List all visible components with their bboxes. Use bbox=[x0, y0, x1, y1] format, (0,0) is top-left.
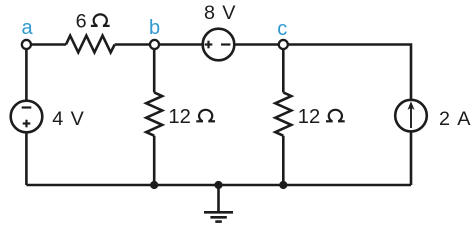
current source I1 2A (circle) bbox=[395, 100, 427, 132]
wire: node b branch upper bbox=[153, 45, 156, 93]
svg-text:2: 2 bbox=[439, 108, 450, 130]
wire: node c branch lower bbox=[282, 136, 285, 185]
I1 arrow (pointing up) bbox=[408, 101, 415, 128]
svg-text:12: 12 bbox=[298, 106, 320, 128]
wire: bottom rail bbox=[26, 184, 411, 187]
svg-text:8: 8 bbox=[204, 2, 215, 24]
wire: resistor R1 to node b bbox=[115, 43, 155, 46]
junction dot at ground bbox=[214, 181, 222, 189]
voltage source V2 8V (circle) bbox=[203, 29, 235, 61]
node c (open circle) bbox=[279, 40, 288, 49]
V2 minus sign bbox=[221, 43, 230, 45]
omega glyph (drawn) for 6 ohm bbox=[91, 14, 110, 26]
svg-text:a: a bbox=[21, 17, 33, 39]
resistor R3 12 ohm (vertical zigzag) bbox=[275, 92, 291, 135]
svg-text:c: c bbox=[277, 18, 287, 40]
V1 plus sign bbox=[23, 120, 31, 128]
wire: node c to top-right corner and right rail down bbox=[283, 45, 411, 186]
resistor R2 12 ohm (vertical zigzag) bbox=[146, 92, 162, 135]
svg-text:6: 6 bbox=[76, 10, 87, 32]
svg-text:4: 4 bbox=[52, 108, 63, 130]
wire: node a to resistor R1 bbox=[26, 43, 66, 46]
ground symbol bbox=[204, 185, 233, 222]
V2 plus sign bbox=[205, 41, 213, 49]
wire: left rail from node a down through source V1 bbox=[25, 45, 28, 186]
V1 minus sign bbox=[22, 106, 32, 108]
svg-text:A: A bbox=[457, 108, 471, 130]
node a (open circle) bbox=[22, 40, 31, 49]
voltage source V1 4V (circle) bbox=[11, 101, 43, 133]
wire: node c branch upper bbox=[282, 45, 285, 93]
svg-text:12: 12 bbox=[168, 106, 190, 128]
resistor R1 6 ohm (horizontal zigzag) bbox=[66, 36, 115, 53]
junction dot at c branch bottom bbox=[279, 181, 287, 189]
svg-text:V: V bbox=[222, 2, 236, 24]
wire: node b to node c through source V2 bbox=[154, 43, 283, 46]
svg-text:b: b bbox=[149, 17, 160, 39]
svg-text:V: V bbox=[71, 108, 85, 130]
node b (open circle) bbox=[150, 40, 159, 49]
wire: node b branch lower bbox=[153, 136, 156, 185]
junction dot at b branch bottom bbox=[150, 181, 158, 189]
